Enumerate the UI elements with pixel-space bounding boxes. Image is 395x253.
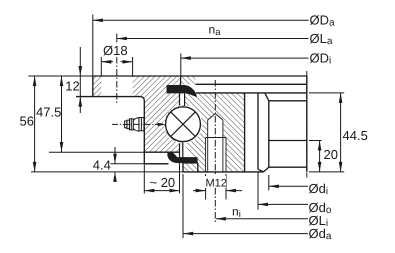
dimension ØLa: leader line bbox=[117, 38, 309, 40]
bore chamfer top bbox=[265, 93, 269, 101]
top face bbox=[93, 75, 307, 77]
inner ring bottom face bbox=[183, 171, 263, 173]
dimension 20: extension line bbox=[309, 140, 322, 142]
bore centerline dash-dot bbox=[306, 71, 308, 178]
grease line dash-dot with arrow to ball bbox=[112, 123, 160, 125]
dimension Ødo: extension line bbox=[257, 172, 259, 210]
svg-text:ni: ni bbox=[232, 205, 241, 221]
dimension Ødi: extension line bbox=[268, 175, 270, 191]
flange left face bbox=[92, 76, 94, 97]
svg-text:na: na bbox=[209, 22, 222, 38]
dimension 44.5: extension line bbox=[309, 92, 344, 94]
seal land step line bbox=[196, 83, 307, 85]
dimension Ø18: dim line bbox=[101, 61, 132, 63]
bore edge line bbox=[257, 93, 259, 169]
outer ring lower groove line bbox=[144, 151, 179, 153]
dimension ~20: extension lines bbox=[144, 164, 179, 194]
dimension 20: dim line bbox=[319, 141, 321, 172]
inner ring seal-land corner piece bbox=[181, 76, 196, 84]
dimension Ø18: arrows bbox=[101, 60, 132, 64]
body left face bbox=[143, 101, 145, 164]
dimension Øda: extension line (ball center extended) bbox=[182, 174, 184, 238]
svg-text:ØDi: ØDi bbox=[310, 50, 332, 66]
dimension 4.4: extension line bbox=[111, 163, 169, 165]
hatch boundary right wall bbox=[244, 93, 246, 172]
dimension 47.5: dim line bbox=[61, 76, 63, 152]
label M12 background bbox=[205, 176, 226, 188]
dimension 4.4: arrows outside bbox=[114, 147, 116, 181]
bottom seal bbox=[168, 152, 198, 163]
ball bbox=[166, 107, 201, 142]
bore bottom chamfer bbox=[258, 169, 263, 172]
inner ring hatched section bbox=[164, 93, 245, 171]
dimension ~20: dim line bbox=[144, 190, 179, 192]
dimension 44.5: bottom extension bbox=[309, 171, 344, 173]
dimension Øda: leader bbox=[183, 233, 308, 235]
bottom recess chamfer bbox=[263, 167, 268, 172]
outer ring bottom lip face bbox=[144, 163, 168, 165]
inner ring shelf wall bbox=[197, 163, 199, 172]
svg-text:Øda: Øda bbox=[309, 226, 332, 242]
top seal bbox=[167, 85, 197, 97]
inner ring seal shelf bbox=[183, 162, 198, 164]
dimension ØLa: arrow bbox=[117, 37, 127, 41]
bore upper recess line bbox=[269, 100, 307, 102]
svg-text:M12: M12 bbox=[206, 178, 227, 190]
grease line arrow bbox=[158, 123, 166, 126]
bolt hole upper extension line bbox=[116, 34, 118, 43]
ball cross lines bbox=[171, 112, 196, 137]
dimension M12: arrows outside bbox=[193, 190, 242, 192]
svg-text:44.5: 44.5 bbox=[343, 128, 368, 143]
dimension ØDi: arrow bbox=[181, 56, 191, 60]
bore vertical wall bbox=[268, 101, 270, 167]
M12 tapped hole bbox=[206, 114, 226, 172]
drill hole lines bbox=[208, 120, 223, 172]
dimension 56: dim line bbox=[34, 76, 36, 172]
dimension ØDa: arrow bbox=[93, 19, 103, 23]
flange top extension line to left (12/47.5/56 dims) bbox=[28, 75, 92, 77]
joint line above top seal bbox=[180, 76, 182, 85]
svg-text:12: 12 bbox=[65, 78, 79, 93]
dimension Ødo: leader bbox=[258, 203, 308, 205]
inner ring outline bbox=[183, 76, 307, 172]
inner ring sectional top face bbox=[196, 92, 307, 94]
dimension 12: arrows at x=80.3 bbox=[79, 47, 81, 113]
dimension M12: extension lines bbox=[206, 174, 226, 200]
svg-text:4.4: 4.4 bbox=[93, 157, 111, 172]
dimension 56: bottom extension line (inner ring bottom face extended) bbox=[31, 171, 183, 173]
M12 centerline bbox=[214, 80, 216, 223]
dimension Ødi: leader bbox=[269, 185, 308, 187]
drill cone point bbox=[208, 114, 223, 120]
dimension ØDi: leader line bbox=[181, 57, 309, 59]
outer ring hatched section (flange + body) bbox=[93, 76, 181, 152]
bottom recess face bbox=[269, 166, 307, 168]
dimension ØDa: extension line bbox=[92, 15, 94, 77]
dimension 47.5: bottom extension line bbox=[49, 151, 144, 153]
svg-text:47.5: 47.5 bbox=[36, 104, 61, 119]
bore face bbox=[306, 76, 308, 172]
outer ring outline: flange + body bbox=[76, 76, 307, 164]
svg-text:ØDa: ØDa bbox=[310, 12, 336, 28]
grease nipple bbox=[125, 118, 144, 132]
dimension ~20: arrows bbox=[144, 189, 179, 193]
flange bottom face bbox=[76, 97, 144, 101]
bore shoulder line (20 dim) bbox=[269, 140, 307, 142]
dimension ØDi: extension line bbox=[180, 54, 182, 77]
bottom gap slot edges bbox=[179, 143, 181, 164]
svg-text:ØLa: ØLa bbox=[310, 31, 333, 47]
dimension 44.5: dim line bbox=[340, 93, 342, 172]
bolt hole centerline (flange) bbox=[116, 57, 118, 103]
inner ring bottom-left face bbox=[182, 163, 184, 172]
svg-text:56: 56 bbox=[20, 113, 34, 128]
svg-text:~ 20: ~ 20 bbox=[150, 175, 176, 190]
thread major lines bbox=[206, 138, 226, 172]
top gap slot edges bbox=[179, 93, 181, 105]
dimension Ø18: extension lines bbox=[101, 57, 132, 76]
dimension ØLi / ni: leader bbox=[216, 218, 308, 220]
dimension ØDa: leader line bbox=[93, 19, 309, 21]
thread end line bbox=[206, 137, 226, 139]
svg-text:20: 20 bbox=[324, 147, 338, 162]
svg-text:Ø18: Ø18 bbox=[103, 43, 128, 58]
svg-text:Ødi: Ødi bbox=[309, 181, 329, 197]
